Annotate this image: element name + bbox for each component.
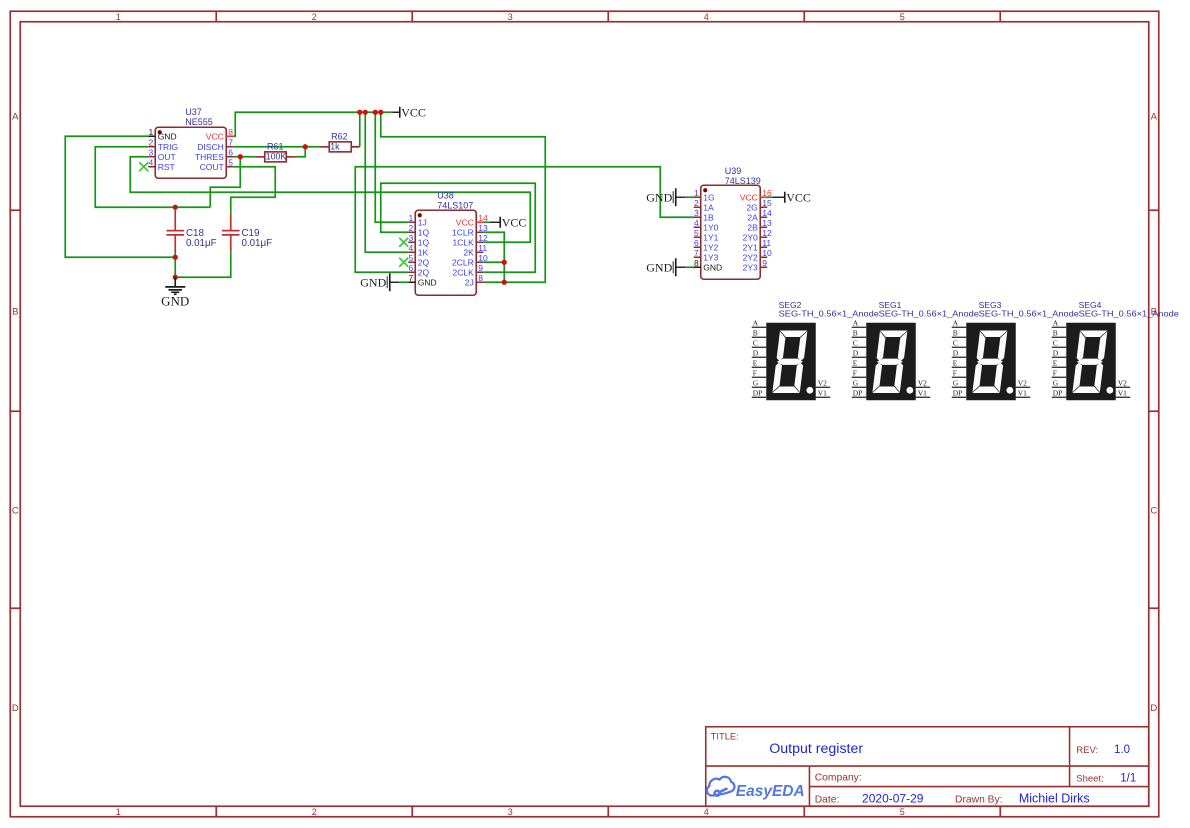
- svg-text:E: E: [853, 358, 858, 367]
- svg-text:E: E: [953, 358, 958, 367]
- svg-text:2020-07-29: 2020-07-29: [862, 791, 924, 805]
- svg-text:1CLR: 1CLR: [452, 227, 474, 237]
- svg-text:DP: DP: [853, 388, 863, 397]
- svg-text:9: 9: [478, 263, 483, 273]
- svg-text:Output register: Output register: [769, 741, 863, 757]
- svg-text:GND: GND: [646, 260, 672, 274]
- svg-text:15: 15: [762, 198, 772, 208]
- svg-text:GND: GND: [158, 131, 177, 141]
- svg-text:D: D: [953, 348, 959, 357]
- svg-text:VCC: VCC: [401, 105, 426, 119]
- svg-text:11: 11: [478, 243, 487, 253]
- svg-text:2K: 2K: [463, 247, 474, 257]
- svg-text:16: 16: [762, 188, 772, 198]
- svg-text:F: F: [853, 368, 857, 377]
- svg-text:GND: GND: [646, 190, 672, 204]
- svg-text:1: 1: [116, 807, 121, 817]
- svg-text:11: 11: [762, 238, 771, 248]
- svg-text:COUT: COUT: [200, 162, 224, 172]
- svg-text:1Q: 1Q: [418, 227, 430, 237]
- svg-text:14: 14: [478, 213, 488, 223]
- svg-text:NE555: NE555: [185, 117, 213, 127]
- svg-text:1CLK: 1CLK: [452, 237, 474, 247]
- svg-text:GND: GND: [161, 293, 189, 308]
- svg-text:6: 6: [228, 147, 233, 157]
- svg-text:F: F: [1053, 368, 1057, 377]
- svg-text:D: D: [1150, 703, 1157, 714]
- svg-text:5: 5: [900, 807, 905, 817]
- svg-text:DP: DP: [753, 388, 763, 397]
- svg-text:1A: 1A: [703, 202, 714, 212]
- svg-text:EasyEDA: EasyEDA: [736, 783, 805, 800]
- svg-text:V2: V2: [918, 378, 927, 387]
- svg-text:C: C: [1053, 338, 1058, 347]
- svg-text:Sheet:: Sheet:: [1076, 773, 1103, 784]
- svg-text:1Q: 1Q: [418, 237, 430, 247]
- svg-text:5: 5: [228, 157, 233, 167]
- svg-text:G: G: [953, 378, 959, 387]
- svg-text:B: B: [853, 328, 858, 337]
- svg-text:SEG-TH_0.56×1_Anode: SEG-TH_0.56×1_Anode: [1079, 308, 1180, 318]
- svg-text:DP: DP: [1053, 388, 1063, 397]
- svg-text:1k: 1k: [330, 141, 340, 151]
- svg-text:2Y0: 2Y0: [743, 232, 758, 242]
- svg-text:2B: 2B: [747, 222, 758, 232]
- svg-text:A: A: [12, 111, 19, 122]
- svg-text:THRES: THRES: [195, 152, 224, 162]
- svg-text:3: 3: [149, 147, 154, 157]
- svg-text:DISCH: DISCH: [197, 142, 223, 152]
- svg-text:V1: V1: [1118, 388, 1127, 397]
- svg-text:A: A: [753, 318, 759, 327]
- svg-text:4: 4: [409, 243, 414, 253]
- svg-text:74LS107: 74LS107: [437, 200, 473, 210]
- svg-text:R62: R62: [331, 131, 348, 141]
- svg-text:V2: V2: [818, 378, 827, 387]
- svg-text:D: D: [753, 348, 759, 357]
- svg-text:2Y3: 2Y3: [743, 262, 758, 272]
- svg-text:Michiel Dirks: Michiel Dirks: [1019, 792, 1090, 806]
- svg-text:SEG-TH_0.56×1_Anode: SEG-TH_0.56×1_Anode: [879, 308, 980, 318]
- svg-text:2J: 2J: [465, 277, 474, 287]
- svg-text:1: 1: [409, 213, 414, 223]
- svg-text:C: C: [12, 505, 19, 516]
- svg-text:2CLR: 2CLR: [452, 257, 474, 267]
- svg-text:0.01μF: 0.01μF: [241, 238, 272, 249]
- svg-text:V1: V1: [1018, 388, 1027, 397]
- svg-text:DP: DP: [953, 388, 963, 397]
- svg-text:Date:: Date:: [815, 794, 840, 805]
- svg-text:C: C: [853, 338, 858, 347]
- svg-text:1: 1: [116, 12, 121, 22]
- svg-text:SEG-TH_0.56×1_Anode: SEG-TH_0.56×1_Anode: [779, 308, 880, 318]
- svg-text:2Q: 2Q: [418, 257, 430, 267]
- svg-text:V1: V1: [918, 388, 927, 397]
- svg-text:GND: GND: [703, 262, 722, 272]
- svg-text:74LS139: 74LS139: [725, 176, 761, 186]
- svg-text:3: 3: [508, 807, 513, 817]
- svg-text:1K: 1K: [418, 247, 429, 257]
- svg-text:TITLE:: TITLE:: [711, 731, 739, 741]
- svg-text:2G: 2G: [746, 202, 757, 212]
- svg-text:VCC: VCC: [740, 192, 758, 202]
- svg-text:5: 5: [694, 228, 699, 238]
- svg-text:C: C: [953, 338, 958, 347]
- svg-text:5: 5: [409, 253, 414, 263]
- svg-text:B: B: [953, 328, 958, 337]
- svg-text:B: B: [1053, 328, 1058, 337]
- svg-text:RST: RST: [158, 162, 175, 172]
- svg-text:TRIG: TRIG: [158, 142, 178, 152]
- svg-text:VCC: VCC: [502, 215, 527, 229]
- svg-text:10: 10: [478, 253, 488, 263]
- svg-text:8: 8: [228, 127, 233, 137]
- svg-text:C: C: [1150, 505, 1157, 516]
- svg-text:4: 4: [704, 807, 709, 817]
- svg-text:GND: GND: [360, 275, 386, 289]
- svg-text:F: F: [953, 368, 957, 377]
- svg-text:U39: U39: [725, 166, 742, 176]
- svg-text:C: C: [753, 338, 758, 347]
- svg-text:100K: 100K: [266, 151, 287, 161]
- svg-text:2: 2: [312, 807, 317, 817]
- svg-text:D: D: [853, 348, 859, 357]
- svg-text:12: 12: [762, 228, 772, 238]
- svg-text:GND: GND: [418, 277, 437, 287]
- svg-text:4: 4: [704, 12, 709, 22]
- svg-text:1Y1: 1Y1: [703, 232, 718, 242]
- svg-text:2CLK: 2CLK: [452, 267, 474, 277]
- svg-text:1: 1: [149, 127, 154, 137]
- svg-text:REV:: REV:: [1076, 745, 1098, 756]
- svg-text:G: G: [853, 378, 859, 387]
- svg-text:A: A: [953, 318, 959, 327]
- svg-text:2A: 2A: [747, 212, 758, 222]
- svg-text:1B: 1B: [703, 212, 714, 222]
- svg-text:7: 7: [694, 248, 699, 258]
- svg-text:2: 2: [694, 198, 699, 208]
- svg-text:VCC: VCC: [786, 190, 811, 204]
- svg-text:B: B: [753, 328, 758, 337]
- svg-text:VCC: VCC: [206, 131, 224, 141]
- svg-text:G: G: [1053, 378, 1059, 387]
- svg-text:5: 5: [900, 12, 905, 22]
- svg-text:4: 4: [694, 218, 699, 228]
- svg-text:Company:: Company:: [815, 772, 862, 783]
- svg-text:OUT: OUT: [158, 152, 176, 162]
- svg-text:9: 9: [762, 258, 767, 268]
- svg-text:1Y0: 1Y0: [703, 222, 718, 232]
- svg-text:Drawn By:: Drawn By:: [955, 795, 1003, 806]
- svg-text:12: 12: [478, 233, 488, 243]
- svg-text:13: 13: [478, 223, 488, 233]
- svg-text:6: 6: [694, 238, 699, 248]
- svg-text:2: 2: [409, 223, 414, 233]
- svg-text:1.0: 1.0: [1114, 744, 1130, 756]
- svg-text:V2: V2: [1118, 378, 1127, 387]
- svg-text:3: 3: [694, 208, 699, 218]
- svg-text:U38: U38: [437, 190, 454, 200]
- svg-text:SEG-TH_0.56×1_Anode: SEG-TH_0.56×1_Anode: [979, 308, 1080, 318]
- svg-text:2Y1: 2Y1: [743, 242, 758, 252]
- svg-text:1: 1: [694, 188, 699, 198]
- svg-text:D: D: [12, 703, 19, 714]
- svg-text:A: A: [1151, 111, 1158, 122]
- svg-text:1Y3: 1Y3: [703, 252, 718, 262]
- svg-text:1Y2: 1Y2: [703, 242, 718, 252]
- svg-text:F: F: [753, 368, 757, 377]
- svg-text:E: E: [1053, 358, 1058, 367]
- svg-text:0.01μF: 0.01μF: [186, 238, 217, 249]
- svg-text:6: 6: [409, 263, 414, 273]
- svg-text:V1: V1: [818, 388, 827, 397]
- svg-text:4: 4: [149, 157, 154, 167]
- svg-text:7: 7: [409, 273, 414, 283]
- svg-text:A: A: [1053, 318, 1059, 327]
- svg-text:E: E: [753, 358, 758, 367]
- svg-text:7: 7: [228, 137, 233, 147]
- svg-text:2: 2: [312, 12, 317, 22]
- svg-text:3: 3: [409, 233, 414, 243]
- svg-text:1J: 1J: [418, 217, 427, 227]
- svg-text:R61: R61: [267, 141, 284, 151]
- svg-text:1G: 1G: [703, 192, 714, 202]
- svg-text:10: 10: [762, 248, 772, 258]
- svg-text:D: D: [1053, 348, 1059, 357]
- svg-text:G: G: [753, 378, 759, 387]
- svg-text:1/1: 1/1: [1120, 772, 1136, 784]
- svg-text:8: 8: [478, 273, 483, 283]
- svg-text:U37: U37: [185, 107, 202, 117]
- svg-text:8: 8: [694, 258, 699, 268]
- svg-text:3: 3: [508, 12, 513, 22]
- svg-text:2: 2: [149, 137, 154, 147]
- svg-text:13: 13: [762, 218, 772, 228]
- svg-text:A: A: [853, 318, 859, 327]
- svg-text:2Q: 2Q: [418, 267, 430, 277]
- svg-text:V2: V2: [1018, 378, 1027, 387]
- svg-text:VCC: VCC: [456, 217, 474, 227]
- svg-text:2Y2: 2Y2: [743, 252, 758, 262]
- svg-text:B: B: [12, 306, 18, 317]
- svg-text:14: 14: [762, 208, 772, 218]
